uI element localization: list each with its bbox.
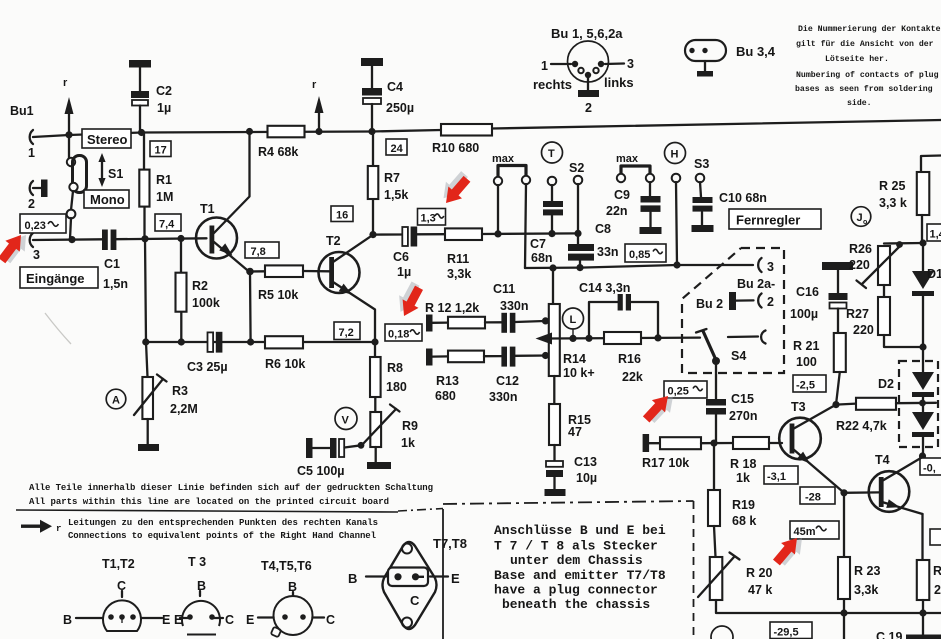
measurement box 0,25~ <box>664 381 707 398</box>
annotation red arrow 45m~ <box>770 530 809 571</box>
svg-text:R8: R8 <box>387 361 403 375</box>
junction row1/max <box>494 230 501 237</box>
svg-text:C14 3,3n: C14 3,3n <box>579 281 630 295</box>
junction bottom/R24 <box>919 609 926 616</box>
svg-text:1,4: 1,4 <box>930 229 941 241</box>
svg-text:2: 2 <box>934 583 941 597</box>
svg-text:T2: T2 <box>326 234 341 248</box>
svg-text:Bu 2a-: Bu 2a- <box>737 277 775 291</box>
svg-text:V: V <box>342 415 350 427</box>
capacitor C6 <box>402 227 408 246</box>
svg-text:47 k: 47 k <box>748 583 772 597</box>
diode D2a <box>922 347 924 372</box>
svg-text:links: links <box>604 75 634 90</box>
voltage box 7,2 <box>334 322 360 340</box>
ground under R9 <box>375 447 377 462</box>
connector Bu1 pin2 <box>30 181 33 195</box>
svg-text:B: B <box>197 579 206 593</box>
svg-text:68 k: 68 k <box>732 514 756 528</box>
svg-text:T1,T2: T1,T2 <box>102 557 135 571</box>
svg-text:0,23: 0,23 <box>25 220 46 232</box>
wire C12 to R14 <box>515 354 548 357</box>
svg-text:C: C <box>225 613 234 627</box>
svg-text:Leitungen zu den entsprechende: Leitungen zu den entsprechenden Punkten … <box>68 518 378 528</box>
svg-text:220: 220 <box>849 258 870 272</box>
resistor R10 <box>441 124 492 136</box>
junction feedback/T2 emitter <box>371 338 378 345</box>
svg-text:2,2M: 2,2M <box>170 402 198 416</box>
svg-text:max: max <box>492 153 515 165</box>
capacitor C12 <box>501 347 507 367</box>
junction wiper/C14 left <box>585 335 592 342</box>
wire T1 emitter down <box>249 272 252 343</box>
svg-text:24: 24 <box>391 143 404 155</box>
capacitor C4 <box>361 58 383 66</box>
svg-text:7,8: 7,8 <box>251 246 266 258</box>
voltage box 7,4 <box>155 214 181 231</box>
svg-text:250µ: 250µ <box>386 101 414 115</box>
resistor R5 <box>250 270 265 273</box>
capacitor C15 <box>706 399 726 406</box>
resistor R27 <box>883 285 885 297</box>
resistor R11 <box>445 228 482 240</box>
svg-text:beneath the chassis: beneath the chassis <box>502 597 650 612</box>
junction T3 emitter / T4 base <box>840 489 847 496</box>
svg-text:68n: 68n <box>531 251 553 265</box>
capacitor C8 <box>568 244 594 251</box>
measurement box 45m~ <box>790 521 839 539</box>
junction row2/R14 <box>549 264 556 271</box>
svg-text:R14: R14 <box>563 352 586 366</box>
svg-text:270n: 270n <box>729 409 758 423</box>
junction <box>65 131 72 138</box>
wire C6 to R11 <box>417 233 445 235</box>
junction C2/R1 on rail <box>138 129 145 136</box>
svg-text:R7: R7 <box>384 171 400 185</box>
junction T3 collector <box>832 401 839 408</box>
node T <box>542 142 563 163</box>
svg-text:Lötseite her.: Lötseite her. <box>825 54 889 64</box>
svg-text:3: 3 <box>627 57 634 71</box>
svg-text:C11: C11 <box>493 282 515 296</box>
resistor R25 <box>917 172 930 215</box>
junction feedback/R1 column <box>142 338 149 345</box>
wire row2 down to R14 <box>552 268 554 304</box>
capacitor C2 <box>129 60 151 68</box>
svg-text:R5 10k: R5 10k <box>258 288 298 302</box>
svg-text:E: E <box>246 613 254 627</box>
node A <box>106 389 126 409</box>
wire C11 to R14 <box>515 321 548 322</box>
svg-text:r: r <box>56 524 61 534</box>
junction C15/R17 row <box>710 440 717 447</box>
label Stereo <box>82 129 131 148</box>
svg-text:R16: R16 <box>618 352 641 366</box>
svg-text:rechts: rechts <box>533 77 572 92</box>
capacitor C3 <box>208 332 214 352</box>
svg-text:Mono: Mono <box>90 192 125 207</box>
capacitor C16 <box>822 262 853 270</box>
svg-text:D2: D2 <box>878 377 894 391</box>
wire S1 drop <box>68 135 70 158</box>
wire T4 emitter column <box>921 514 923 560</box>
terminal r R13 <box>426 349 433 366</box>
svg-text:bases as seen from soldering: bases as seen from soldering <box>795 84 933 94</box>
resistor R18 <box>733 437 769 449</box>
border PCB line <box>16 510 398 512</box>
svg-text:side.: side. <box>847 98 872 108</box>
svg-text:100µ: 100µ <box>790 307 818 321</box>
svg-text:S1: S1 <box>108 167 123 181</box>
junction R2 top <box>177 235 184 242</box>
svg-text:T4: T4 <box>875 453 890 467</box>
svg-text:3: 3 <box>767 260 774 274</box>
svg-text:B: B <box>63 613 72 627</box>
svg-text:3: 3 <box>33 248 40 262</box>
svg-text:J: J <box>857 212 863 224</box>
svg-text:R11: R11 <box>447 252 469 266</box>
svg-text:r: r <box>312 79 317 91</box>
resistor R13 <box>433 355 449 358</box>
svg-text:C8: C8 <box>595 222 611 236</box>
measurement box 1,3~ <box>418 209 446 226</box>
svg-text:C2: C2 <box>156 84 172 98</box>
wire S4 to C15 <box>715 361 717 399</box>
svg-text:T7,T8: T7,T8 <box>433 536 467 551</box>
diode D2b <box>922 397 924 412</box>
svg-text:C5 100µ: C5 100µ <box>297 464 345 478</box>
potentiometer R20 <box>714 526 716 557</box>
svg-text:1,5n: 1,5n <box>103 277 128 291</box>
wire T4 base column down <box>843 493 845 613</box>
wire R19 column <box>713 443 715 490</box>
svg-text:R 21: R 21 <box>793 339 819 353</box>
switch S4 dashed outline <box>682 248 784 373</box>
wire feedback row <box>146 341 376 343</box>
svg-text:1k: 1k <box>736 471 750 485</box>
svg-text:10µ: 10µ <box>576 471 597 485</box>
wire input column to R3 <box>145 239 148 377</box>
junction row1/C7 <box>548 230 555 237</box>
resistor R16 <box>604 332 641 344</box>
node Jo <box>851 207 871 227</box>
svg-text:T4,T5,T6: T4,T5,T6 <box>261 559 312 573</box>
svg-text:3,3k: 3,3k <box>854 583 878 597</box>
capacitor C13 <box>553 445 555 461</box>
wire row1 <box>482 232 578 235</box>
resistor R12 <box>433 321 449 323</box>
potentiometer R9 <box>370 412 381 447</box>
note box Anschlüsse <box>442 509 444 639</box>
svg-text:R 20: R 20 <box>746 566 772 580</box>
svg-text:-28: -28 <box>805 492 821 504</box>
svg-text:2: 2 <box>28 197 35 211</box>
resistor R17 <box>649 442 660 444</box>
voltage box -28 <box>800 487 835 504</box>
svg-text:1µ: 1µ <box>397 265 411 279</box>
svg-text:R2: R2 <box>192 279 208 293</box>
svg-text:R 23: R 23 <box>854 564 880 578</box>
potentiometer R3 <box>142 377 153 419</box>
resistor R8 <box>374 342 377 412</box>
wire supply rail <box>33 120 941 137</box>
junction row2/C8 <box>576 264 583 271</box>
wire R14 to R15 <box>553 376 555 404</box>
capacitor C10 <box>693 197 713 203</box>
capacitor C11 <box>501 313 507 333</box>
svg-text:16: 16 <box>336 210 348 222</box>
node V <box>335 408 357 430</box>
svg-text:E: E <box>174 613 182 627</box>
junction R27/D1 <box>919 343 926 350</box>
svg-text:7,2: 7,2 <box>339 327 354 339</box>
svg-text:T 7 / T 8 als Stecker: T 7 / T 8 als Stecker <box>494 539 658 554</box>
svg-text:R3: R3 <box>172 384 188 398</box>
svg-text:C4: C4 <box>387 80 403 94</box>
note r-channel arrow <box>21 525 42 528</box>
voltage box 16 <box>331 206 353 222</box>
svg-text:C15: C15 <box>731 392 754 406</box>
svg-text:Connections to equivalent poin: Connections to equivalent points of the … <box>68 531 377 541</box>
svg-text:-29,5: -29,5 <box>774 627 799 639</box>
measurement box 0,18~ <box>385 324 422 341</box>
svg-text:330n: 330n <box>500 299 529 313</box>
annotation red arrow 0,25~ <box>640 388 680 429</box>
svg-text:R9: R9 <box>402 419 418 433</box>
svg-text:C13: C13 <box>574 455 597 469</box>
measurement box 0,85~ <box>625 244 666 262</box>
svg-text:unter dem Chassis: unter dem Chassis <box>510 553 643 568</box>
junction R25/R26 <box>919 239 926 246</box>
junction R1 bottom <box>141 235 148 242</box>
switch S1 arrow <box>101 159 103 181</box>
measurement box 1,4 (cut) <box>927 224 941 241</box>
svg-text:-2,5: -2,5 <box>796 380 815 392</box>
svg-text:gilt für die Ansicht von der: gilt für die Ansicht von der <box>796 39 934 49</box>
svg-text:33n: 33n <box>597 245 619 259</box>
svg-text:T1: T1 <box>200 202 215 216</box>
contact under H <box>672 174 681 183</box>
wire R17 to R18 <box>701 442 733 445</box>
scan artifact faint line <box>45 313 71 344</box>
svg-text:R17 10k: R17 10k <box>642 456 689 470</box>
svg-text:0,25: 0,25 <box>668 386 689 398</box>
wire input row <box>33 238 102 241</box>
svg-text:Fernregler: Fernregler <box>736 213 800 228</box>
node r-arrow left <box>68 112 70 134</box>
svg-text:C10 68n: C10 68n <box>719 191 767 205</box>
svg-text:R4 68k: R4 68k <box>258 145 298 159</box>
resistor R23 <box>838 557 850 599</box>
svg-text:C16: C16 <box>796 285 819 299</box>
junction T2 collector / R7 <box>369 231 376 238</box>
svg-text:Bu 1, 5,6,2a: Bu 1, 5,6,2a <box>551 26 623 41</box>
wire T2 collector node to C6 <box>373 233 402 235</box>
switch S4 arm <box>703 331 716 360</box>
voltage box -2,5 <box>793 375 826 392</box>
label Fernregler <box>729 209 821 229</box>
svg-text:R26: R26 <box>849 242 872 256</box>
resistor R6 <box>265 336 303 348</box>
resistor R7 <box>372 132 374 235</box>
voltage box -3,1 <box>764 466 798 484</box>
svg-text:have a plug connector: have a plug connector <box>494 583 658 598</box>
voltage box 17 <box>150 141 171 157</box>
svg-text:C1: C1 <box>104 257 120 271</box>
svg-text:0,18: 0,18 <box>388 329 409 341</box>
capacitor C5 <box>306 438 313 458</box>
connector diagram Bu3,4 <box>685 40 726 61</box>
svg-text:10 k+: 10 k+ <box>563 366 595 380</box>
svg-text:2: 2 <box>767 295 774 309</box>
svg-text:A: A <box>112 395 120 407</box>
svg-text:Eingänge: Eingänge <box>26 271 85 286</box>
svg-text:Bu 3,4: Bu 3,4 <box>736 44 776 59</box>
junction wiper/L <box>569 335 576 342</box>
node L <box>563 308 584 329</box>
svg-text:Bu1: Bu1 <box>10 104 34 118</box>
svg-text:3,3k: 3,3k <box>447 267 471 281</box>
svg-text:C3 25µ: C3 25µ <box>187 360 228 374</box>
svg-text:Bu 2: Bu 2 <box>696 297 723 311</box>
svg-text:R10 680: R10 680 <box>432 141 479 155</box>
voltage box -29,5 <box>770 622 812 639</box>
svg-text:-3,1: -3,1 <box>767 471 786 483</box>
junction T1 collector on rail <box>246 128 253 135</box>
node U bottom (cut) <box>711 626 733 639</box>
annotation red arrow 1,3~ <box>435 168 475 209</box>
svg-text:C7: C7 <box>530 237 546 251</box>
voltage box right edge (cut) <box>930 529 941 545</box>
svg-text:R 18: R 18 <box>730 457 756 471</box>
junction C4/R7 on rail <box>368 128 375 135</box>
contact Bu2a pin3 <box>758 258 761 272</box>
svg-text:L: L <box>570 314 577 326</box>
svg-text:R19: R19 <box>732 498 755 512</box>
svg-text:B: B <box>348 571 357 586</box>
svg-text:330n: 330n <box>489 390 518 404</box>
svg-text:C6: C6 <box>393 250 409 264</box>
svg-text:1µ: 1µ <box>157 101 171 115</box>
annotation red arrow 0,18~ <box>392 279 428 320</box>
svg-text:R13: R13 <box>436 374 459 388</box>
svg-text:1,3: 1,3 <box>421 213 436 225</box>
svg-text:22k: 22k <box>622 370 643 384</box>
svg-text:E: E <box>162 613 170 627</box>
svg-text:1: 1 <box>28 146 35 160</box>
svg-text:45m: 45m <box>794 526 816 538</box>
svg-text:220: 220 <box>853 323 874 337</box>
potentiometer R26 <box>884 242 923 245</box>
diode D1 <box>922 243 924 272</box>
connector Bu1 pin1 <box>30 130 33 144</box>
svg-text:C9: C9 <box>614 188 630 202</box>
svg-text:Numbering of contacts of plug: Numbering of contacts of plug <box>796 70 939 80</box>
svg-text:T3: T3 <box>791 400 806 414</box>
potentiometer R14 <box>549 304 560 376</box>
svg-text:C 19: C 19 <box>876 630 902 639</box>
connector Bu1 pin3 <box>30 233 33 247</box>
svg-text:-0,: -0, <box>923 463 936 475</box>
svg-text:C12: C12 <box>496 374 519 388</box>
wire input row to T1 base <box>116 237 206 240</box>
node r-arrow mid <box>315 128 322 135</box>
resistor R19 <box>708 490 720 526</box>
junction bottom/R23 <box>840 609 847 616</box>
svg-text:7,4: 7,4 <box>159 219 175 231</box>
svg-text:1,5k: 1,5k <box>384 188 408 202</box>
svg-text:3,3 k: 3,3 k <box>879 196 907 210</box>
wire bottom row <box>716 600 941 613</box>
svg-text:47: 47 <box>568 425 582 439</box>
node H <box>665 143 686 164</box>
svg-text:Alle Teile innerhalb dieser Li: Alle Teile innerhalb dieser Linie befind… <box>29 483 433 493</box>
svg-text:100: 100 <box>796 355 817 369</box>
svg-text:D1: D1 <box>927 267 941 281</box>
capacitor C1 <box>102 230 108 251</box>
annotation red arrow input <box>0 227 33 268</box>
resistor R22 <box>836 404 856 405</box>
svg-text:Stereo: Stereo <box>87 132 128 147</box>
svg-text:1M: 1M <box>156 190 173 204</box>
svg-text:Die Nummerierung der Kontakte: Die Nummerierung der Kontakte <box>798 24 941 34</box>
svg-text:max: max <box>616 153 639 165</box>
svg-text:T 3: T 3 <box>188 555 206 569</box>
wire wiper row <box>551 336 700 339</box>
svg-text:100k: 100k <box>192 296 220 310</box>
junction T4 collector <box>919 452 926 459</box>
capacitor C7 <box>551 185 553 201</box>
voltage box -0, (cut) <box>920 458 941 475</box>
switch S4 open throw <box>728 335 758 338</box>
junction row2/H <box>673 261 680 268</box>
svg-text:T: T <box>548 148 555 160</box>
svg-text:180: 180 <box>386 380 407 394</box>
svg-text:o: o <box>863 219 867 226</box>
svg-text:C: C <box>326 613 335 627</box>
svg-text:R1: R1 <box>156 173 172 187</box>
terminal r R17 <box>643 434 650 452</box>
svg-text:H: H <box>671 149 679 161</box>
svg-text:All parts within this line are: All parts within this line are located o… <box>29 497 389 507</box>
svg-text:Anschlüsse B und E bei: Anschlüsse B und E bei <box>494 523 666 538</box>
voltage box 7,8 <box>245 242 279 258</box>
svg-text:S2: S2 <box>569 161 584 175</box>
contact under T <box>548 177 557 186</box>
resistor R4 <box>268 126 305 138</box>
junction feedback/R5 column <box>247 338 254 345</box>
resistor R1 <box>143 133 146 239</box>
resistor R21 <box>834 333 846 372</box>
svg-text:R27: R27 <box>846 307 869 321</box>
label Eingänge <box>20 267 98 288</box>
wire max left contact down <box>497 185 499 234</box>
svg-text:17: 17 <box>155 145 167 157</box>
svg-text:R 12 1,2k: R 12 1,2k <box>425 301 479 315</box>
measurement box 0,23~ <box>20 214 66 233</box>
svg-text:680: 680 <box>435 389 456 403</box>
junction T1 emitter / R5 <box>246 268 254 276</box>
label Mono <box>84 190 129 208</box>
svg-text:1: 1 <box>541 59 548 73</box>
svg-text:R6 10k: R6 10k <box>265 357 305 371</box>
resistor R2 <box>180 239 183 343</box>
svg-text:S3: S3 <box>694 157 709 171</box>
wire R25 top corner to right edge <box>921 156 941 173</box>
terminal r R12 <box>426 315 433 332</box>
svg-text:R 25: R 25 <box>879 179 905 193</box>
switch S1 <box>67 158 75 166</box>
